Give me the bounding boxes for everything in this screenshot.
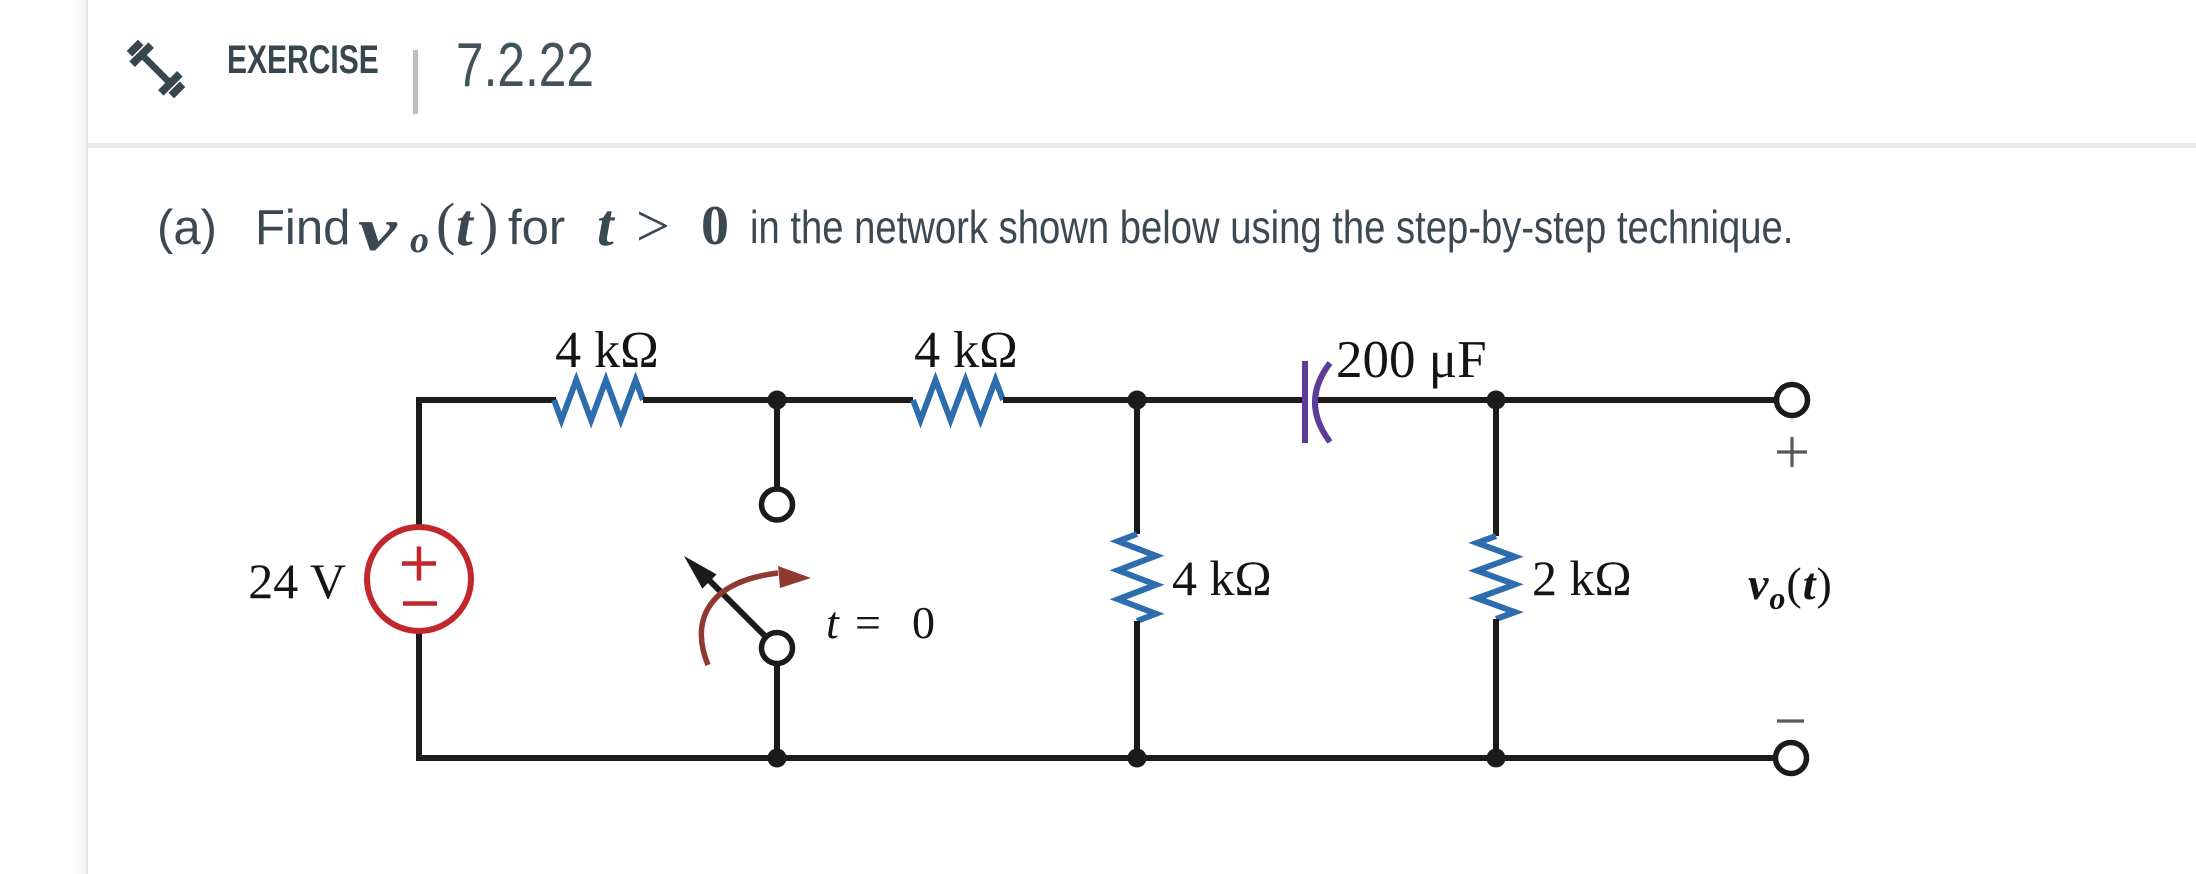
output terminal bottom circle — [1776, 743, 1807, 774]
node: junction dot at R3 top — [1128, 391, 1147, 410]
wire: top rail capacitor to output terminal — [1318, 397, 1776, 403]
wire: switch lower stub — [774, 663, 780, 758]
node: junction dot at R3 bottom — [1128, 749, 1147, 768]
resistor R1 4 kOhm (top left, horizontal) — [554, 380, 643, 420]
output minus sign (gray) — [1777, 719, 1804, 722]
switch SW1 motion arc (dark red) with arrowhead — [701, 566, 811, 665]
EXERCISE label — [227, 40, 379, 80]
node: junction dot at switch bottom — [768, 749, 787, 768]
wire: top-left L (source top to R1 left) — [416, 400, 556, 529]
exercise number 7.2.22 — [456, 35, 594, 97]
left gutter shadow — [72, 0, 86, 874]
svg-text:4 kΩ: 4 kΩ — [555, 322, 659, 379]
voltage source V1 plus sign — [402, 547, 436, 581]
wire: left vertical below source and bottom rail — [416, 631, 1774, 758]
switch SW1 upper contact circle — [762, 489, 793, 520]
wire: R3 upper stub — [1134, 400, 1140, 534]
svg-text:24 V: 24 V — [248, 553, 346, 609]
wire: R3 lower stub — [1134, 621, 1140, 758]
switch SW1 lower contact circle — [762, 633, 793, 664]
voltage source V1 minus sign — [403, 601, 437, 606]
capacitor C1 right plate (curved) — [1315, 363, 1330, 442]
problem statement — [0, 0, 1, 1]
voltage source V1 24 V circle — [367, 527, 471, 631]
wire: R4 lower stub — [1493, 619, 1499, 758]
node: junction dot at R4 bottom — [1487, 749, 1506, 768]
resistor R2 4 kOhm (top middle, horizontal) — [913, 380, 1003, 420]
header separator bar — [413, 50, 418, 114]
wire: switch upper stub — [774, 400, 780, 489]
wire: top rail R2 to capacitor — [1003, 397, 1302, 403]
resistor R4 2 kOhm (right, vertical) — [1477, 536, 1515, 619]
switch SW1 arm with arrowhead — [684, 556, 767, 638]
svg-text:4 kΩ: 4 kΩ — [1172, 550, 1272, 606]
capacitor C1 left plate — [1302, 361, 1308, 443]
output terminal top circle — [1777, 385, 1808, 416]
svg-text:200 μF: 200 μF — [1336, 331, 1487, 389]
svg-text:4 kΩ: 4 kΩ — [914, 322, 1018, 379]
svg-text:vo(t): vo(t) — [1748, 558, 1833, 616]
resistor R3 4 kOhm (middle, vertical) — [1118, 534, 1156, 621]
node: junction dot at switch top — [768, 391, 787, 410]
left vertical divider — [86, 0, 88, 874]
svg-text:2 kΩ: 2 kΩ — [1532, 550, 1632, 606]
output plus sign (gray) — [1777, 437, 1807, 467]
wire: top rail R1 to R2 — [643, 397, 913, 403]
wire: R4 upper stub — [1493, 400, 1499, 536]
node: junction dot at R4 top — [1487, 391, 1506, 410]
exercise dumbbell icon — [124, 37, 188, 101]
svg-text:t=0: t=0 — [826, 597, 935, 648]
header bottom divider — [88, 143, 2196, 148]
